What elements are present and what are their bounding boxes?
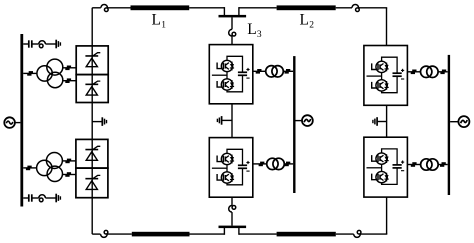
AC source G2 — [302, 115, 313, 126]
breaker — [65, 172, 71, 177]
IGBT half-bridge submodule box (right lower) — [364, 137, 408, 197]
breaker — [440, 70, 446, 75]
polarity label - (right lower) — [401, 170, 404, 172]
wire — [189, 7, 224, 16]
svg-text:3: 3 — [257, 30, 262, 40]
wire — [23, 167, 36, 169]
AC source G3 — [458, 116, 469, 127]
wire (bottom rail to capacitor) (middle lower) — [227, 169, 243, 185]
wire — [15, 122, 21, 124]
inductor (bottom tapping reactor bar) — [219, 226, 247, 229]
svg-text:L: L — [300, 12, 309, 29]
wire (midpoint lead) (middle upper) — [212, 72, 227, 79]
label L1 — [152, 12, 167, 31]
wire — [284, 163, 293, 165]
polarity label + (right upper) — [401, 69, 404, 72]
polarity label - (right upper) — [401, 78, 404, 80]
smoothing reactor (top right) — [352, 4, 359, 11]
capacitor (submodule DC cap) (right upper) — [393, 73, 402, 76]
ground (right column midpoint) — [373, 117, 377, 126]
wire (top rail to capacitor) (middle upper) — [227, 56, 243, 72]
wire — [378, 121, 387, 123]
wire — [438, 71, 448, 73]
wire — [359, 8, 388, 46]
breaker — [65, 78, 71, 83]
wire — [222, 119, 232, 121]
breaker — [26, 166, 32, 171]
wire — [231, 197, 233, 205]
wire — [239, 227, 277, 234]
capacitor C-f1 — [29, 40, 32, 47]
wire (midpoint lead) (right lower) — [367, 164, 382, 171]
inductor L2 — [277, 5, 336, 10]
wire — [253, 163, 267, 165]
IGBT S2 (middle lower) — [217, 172, 234, 183]
right AC bus — [448, 55, 450, 195]
wire — [231, 212, 233, 226]
inductor L-f2 — [39, 195, 46, 202]
wire — [92, 121, 102, 123]
polarity label + (right lower) — [401, 161, 404, 164]
capacitor (submodule DC cap) (middle upper) — [238, 72, 247, 75]
breaker — [65, 66, 71, 71]
thyristor valve box V4 — [76, 168, 108, 198]
wire — [92, 233, 100, 235]
thyristor valve box V1 — [76, 46, 108, 75]
transformer T3 — [266, 66, 284, 77]
wire — [107, 233, 132, 235]
polarity label + (middle upper) — [246, 68, 249, 71]
thyristor T-V3 — [85, 146, 100, 160]
IGBT S2 (right upper) — [372, 80, 389, 91]
wire — [23, 43, 56, 45]
wire (bottom rail to capacitor) (right lower) — [382, 168, 398, 184]
wire — [407, 71, 420, 73]
wire — [231, 17, 233, 29]
wire — [336, 233, 354, 235]
thyristor T-V4 — [85, 175, 100, 189]
ground (top filter) — [56, 40, 60, 49]
IGBT S1 (middle upper) — [217, 60, 234, 71]
thyristor valve box V2 — [76, 75, 108, 103]
transformer T5 — [421, 66, 439, 77]
IGBT S1 (middle lower) — [217, 153, 234, 164]
thyristor T-V2 — [85, 81, 100, 95]
wire — [239, 7, 277, 16]
wire — [63, 67, 77, 69]
transformer T4 — [267, 158, 285, 169]
wire (top rail to capacitor) (right upper) — [382, 57, 398, 73]
left AC bus — [20, 34, 23, 207]
wire — [231, 104, 233, 138]
middle AC bus — [293, 56, 295, 193]
wire — [407, 164, 420, 166]
inductor L-f1 — [39, 41, 46, 48]
wire — [253, 70, 266, 72]
IGBT S1 (right lower) — [372, 153, 389, 164]
svg-text:L: L — [247, 21, 256, 38]
wire (bottom rail to capacitor) (right upper) — [382, 77, 398, 93]
ground (left valve midpoint) — [102, 117, 106, 126]
wire — [231, 36, 233, 45]
inductor L1 — [131, 5, 190, 10]
wire — [63, 174, 76, 176]
breaker — [27, 71, 33, 76]
capacitor (submodule DC cap) (middle lower) — [238, 165, 247, 168]
breaker — [411, 70, 417, 75]
svg-text:1: 1 — [161, 20, 166, 30]
label L2 — [300, 12, 315, 31]
wire (top rail to capacitor) (right lower) — [382, 149, 398, 165]
wire — [450, 121, 458, 123]
transformer T6 — [421, 159, 439, 170]
capacitor C-f2 — [29, 194, 32, 201]
wire (bottom rail to capacitor) (middle upper) — [227, 76, 243, 92]
IGBT S2 (right lower) — [372, 171, 389, 182]
breaker — [256, 69, 262, 74]
wire (midpoint lead) (right upper) — [367, 73, 382, 80]
thyristor valve box V3 — [76, 139, 108, 168]
smoothing reactor (bottom L3 drop) — [229, 206, 236, 213]
wire — [23, 72, 37, 74]
svg-text:2: 2 — [309, 20, 314, 30]
IGBT half-bridge submodule box (middle upper) — [209, 45, 253, 104]
smoothing reactor (bottom left) — [101, 230, 108, 237]
breaker — [285, 69, 291, 74]
wire (midpoint lead) (middle lower) — [212, 165, 227, 172]
wire — [23, 197, 56, 199]
wire — [62, 160, 76, 162]
IGBT S1 (right upper) — [372, 61, 389, 72]
polarity label - (middle upper) — [246, 77, 249, 79]
AC source G1 — [4, 117, 15, 128]
transformer T2 (3-winding) — [37, 153, 63, 182]
wire — [92, 7, 101, 9]
IGBT half-bridge submodule box (right upper) — [364, 46, 408, 106]
wire — [438, 164, 448, 166]
polarity label + (middle lower) — [246, 161, 249, 164]
transformer T1 (3-winding) — [37, 59, 63, 88]
IGBT S2 (middle upper) — [217, 79, 234, 90]
wire — [296, 120, 303, 122]
breaker — [411, 162, 417, 167]
wire — [63, 80, 77, 82]
inductor (bottom right bar) — [277, 232, 336, 237]
wire — [386, 105, 388, 137]
breaker — [259, 162, 265, 167]
smoothing reactor (top left) — [101, 5, 108, 12]
inductor (bottom left bar) — [132, 232, 190, 237]
ground (bottom filter) — [56, 194, 60, 203]
polarity label - (middle lower) — [246, 170, 249, 172]
wire — [336, 7, 352, 9]
wire — [190, 227, 225, 234]
IGBT half-bridge submodule box (middle lower) — [209, 138, 253, 198]
wire — [360, 197, 387, 234]
smoothing reactor (bottom right) — [354, 230, 361, 237]
wire — [283, 70, 293, 72]
wire — [108, 7, 131, 9]
breaker — [285, 162, 291, 167]
thyristor T-V1 — [85, 53, 100, 67]
breaker — [65, 159, 71, 164]
label L3 — [247, 21, 262, 40]
capacitor (submodule DC cap) (right lower) — [393, 165, 402, 168]
smoothing reactor (L3 drop) — [229, 29, 236, 36]
inductor L3 (tapping reactor bar) — [219, 15, 247, 18]
svg-text:L: L — [152, 12, 161, 29]
ground (middle column midpoint) — [217, 116, 221, 125]
breaker — [440, 162, 446, 167]
wire (left valve column) — [91, 8, 93, 234]
wire (top rail to capacitor) (middle lower) — [227, 149, 243, 165]
